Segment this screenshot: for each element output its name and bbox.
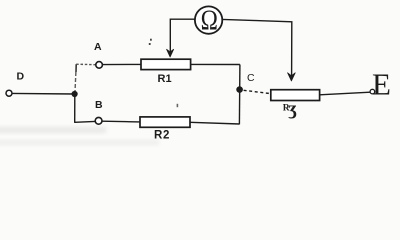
wire R3 to E [320,92,371,95]
svg-text:R2: R2 [154,130,170,142]
terminal B [95,117,102,124]
wire node A to R1 [103,63,141,65]
junction node C [236,86,243,93]
svg-text:C: C [247,72,255,84]
svg-text:Ω: Ω [201,4,218,36]
scan smudge bottom [0,140,159,145]
wire ohmmeter right lead [223,19,292,76]
arrowhead onto R3 [288,73,296,81]
terminal D [6,90,12,96]
svg-text:ʒ: ʒ [288,99,297,120]
wire top-left to node A (faded) [76,63,95,66]
svg-text:B: B [95,99,103,111]
resistor R1 [141,59,191,69]
wire R2 to corner [190,122,239,124]
terminal A [96,62,103,69]
arrowhead onto R1 [167,49,174,57]
ohmmeter U1 circle [195,6,222,33]
wire ohmmeter left lead [170,19,194,53]
junction node on D bus [72,91,78,97]
wire bottom-left to node B [75,120,95,123]
svg-text:E: E [372,67,391,102]
stray scan tick above R2 [177,104,179,107]
wire vertical junction bus upper (faded) [75,64,77,72]
svg-text:R1: R1 [158,73,172,85]
wire node B to R2 [102,120,140,123]
svg-text:A: A [94,41,102,53]
wire corner down through C [238,65,241,125]
resistor R2 [140,117,190,127]
wire C to R3 (dashed) [244,90,271,93]
wire R1 to corner [191,63,240,65]
wire D to junction [12,92,75,95]
resistor R3 [271,90,320,101]
terminal E [370,89,375,94]
scan smudge bottom-left [0,127,106,133]
wire vertical junction bus lower [74,94,76,123]
svg-text:D: D [17,71,25,83]
stray scan mark colon near arrow [149,39,178,108]
